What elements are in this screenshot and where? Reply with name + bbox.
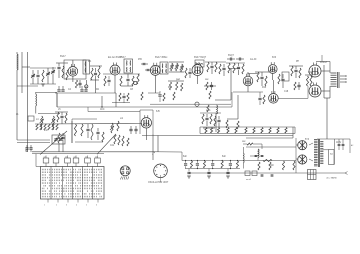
wire bbox=[160, 178, 162, 182]
oscillator coil L2 bbox=[35, 94, 38, 106]
resistor R17 bbox=[206, 82, 208, 90]
wire bbox=[242, 147, 244, 153]
capacitor C46 bbox=[261, 154, 264, 156]
switch bus bbox=[32, 151, 155, 153]
wire bbox=[75, 141, 103, 143]
trimmer box TB3 bbox=[65, 158, 71, 163]
voltage divider rail bbox=[200, 126, 295, 128]
wire bbox=[95, 80, 97, 93]
resistor R40 bbox=[52, 124, 54, 130]
resistor R6 bbox=[98, 66, 100, 78]
resistor R62 bbox=[253, 128, 255, 134]
resistor R60 bbox=[235, 128, 237, 134]
plug base bbox=[121, 177, 129, 180]
trimmer box TB2 bbox=[53, 158, 59, 163]
capacitor C20 bbox=[222, 67, 225, 69]
ground bus bbox=[55, 92, 116, 94]
capacitor C26 bbox=[294, 69, 297, 71]
resistor R50 bbox=[118, 135, 120, 145]
resistor R14 bbox=[169, 82, 171, 90]
wire bbox=[56, 62, 68, 64]
wire bbox=[227, 118, 238, 120]
resistor R16 bbox=[181, 83, 183, 91]
svg-text:C21: C21 bbox=[110, 145, 115, 147]
capacitor C18 bbox=[210, 84, 213, 86]
wire bbox=[247, 72, 249, 76]
wire bbox=[87, 107, 89, 112]
capacitor C35 bbox=[96, 131, 99, 133]
wire bbox=[323, 65, 325, 98]
svg-text:AC: AC bbox=[351, 144, 354, 147]
capacitor C15 bbox=[143, 62, 146, 64]
filter capacitor FC1 bbox=[184, 163, 187, 165]
svg-text:6V6GT: 6V6GT bbox=[320, 62, 328, 64]
resistor R27 bbox=[291, 66, 293, 76]
svg-text:12: 12 bbox=[65, 156, 67, 158]
coupling coil L6 bbox=[217, 105, 218, 114]
wire bbox=[35, 106, 37, 114]
power transformer T6 bbox=[314, 139, 323, 167]
mains terminals bbox=[345, 172, 348, 174]
wire bbox=[215, 99, 231, 101]
capacitor C34 bbox=[86, 128, 89, 130]
capacitor C16 bbox=[147, 68, 150, 70]
wire bbox=[203, 127, 215, 129]
svg-text:osc: osc bbox=[242, 141, 246, 143]
connector plug P1 bbox=[120, 166, 130, 176]
wire bbox=[292, 127, 294, 138]
resistor R7 bbox=[120, 76, 122, 86]
resistor R56 bbox=[205, 128, 207, 134]
switch box S4 bbox=[252, 171, 257, 176]
svg-text:455: 455 bbox=[138, 59, 143, 61]
wire bbox=[72, 60, 74, 67]
resistor R28 bbox=[299, 68, 301, 78]
resistor R58 bbox=[218, 128, 220, 134]
junction bbox=[101, 106, 102, 107]
resistor R15 bbox=[176, 82, 178, 90]
tube V1 bbox=[68, 64, 78, 76]
svg-text:C4: C4 bbox=[68, 89, 72, 91]
wire bbox=[295, 138, 297, 173]
wire bbox=[17, 139, 50, 141]
electrolytic C40 bbox=[187, 171, 190, 173]
wire bbox=[152, 65, 160, 67]
svg-text:PP: PP bbox=[296, 61, 300, 63]
IF transformer T1 bbox=[83, 60, 90, 74]
tube V7 bbox=[269, 91, 279, 103]
switch terminals bbox=[47, 199, 49, 203]
svg-text:6SA7: 6SA7 bbox=[60, 55, 66, 58]
svg-text:6J5: 6J5 bbox=[156, 111, 160, 113]
resistor R20 bbox=[219, 64, 221, 74]
resistor R22 bbox=[233, 63, 235, 73]
wire bbox=[243, 143, 247, 145]
capacitor C8 bbox=[94, 72, 97, 74]
svg-text:6: 6 bbox=[96, 205, 97, 207]
svg-text:6SA7 455kc: 6SA7 455kc bbox=[155, 56, 168, 59]
wire bbox=[272, 73, 274, 80]
wire bbox=[197, 76, 199, 85]
wire bbox=[168, 80, 184, 82]
capacitor C48 bbox=[107, 79, 110, 81]
wire bbox=[22, 66, 30, 68]
svg-text:12: 12 bbox=[74, 156, 76, 158]
IF transformer T3 bbox=[160, 62, 168, 74]
diagonal wire bbox=[97, 135, 115, 154]
wire bbox=[233, 91, 263, 93]
resistor R76 bbox=[209, 91, 211, 99]
AF bus bbox=[142, 135, 293, 137]
wire bbox=[114, 75, 116, 93]
capacitor C19 bbox=[210, 65, 213, 67]
wire bbox=[35, 92, 37, 94]
padder box bbox=[28, 116, 34, 121]
rectifier V12 bbox=[298, 155, 307, 164]
svg-text:1: 1 bbox=[44, 205, 45, 207]
capacitor C32 bbox=[29, 147, 32, 149]
coupling box bbox=[282, 72, 289, 81]
resistor R79 bbox=[127, 93, 129, 101]
variable resistor R12 bbox=[181, 64, 183, 72]
trimmer box TB1 bbox=[43, 158, 49, 163]
ground bus bbox=[17, 85, 38, 87]
shield box of V8 bbox=[140, 110, 153, 134]
tube socket S2 bbox=[154, 164, 168, 178]
resistor R77 bbox=[207, 105, 209, 112]
wire bbox=[17, 142, 50, 144]
filter capacitor FC4 bbox=[203, 161, 205, 168]
capacitor C39 bbox=[217, 119, 220, 121]
svg-text:R21: R21 bbox=[308, 72, 313, 74]
resistor R1 bbox=[42, 70, 44, 82]
resistor R69 bbox=[237, 121, 239, 129]
resistor R61 bbox=[245, 128, 247, 134]
svg-text:3: 3 bbox=[66, 205, 67, 207]
svg-text:L4: L4 bbox=[36, 119, 39, 121]
wire bbox=[35, 154, 37, 167]
wire bbox=[247, 86, 249, 92]
speaker terminals bbox=[340, 75, 346, 77]
capacitor C11 bbox=[80, 89, 83, 91]
filter capacitor FC8 bbox=[236, 161, 238, 168]
resistor R2 bbox=[62, 66, 64, 78]
resistor R3 bbox=[66, 70, 68, 80]
trimmer box TB5 bbox=[85, 158, 91, 163]
variable capacitor C30 bbox=[59, 138, 62, 140]
capacitor C22 bbox=[238, 58, 240, 61]
resistor R34 bbox=[57, 112, 59, 122]
resistor R70 bbox=[104, 76, 106, 86]
resistor R52 bbox=[127, 138, 129, 146]
resistor R73 bbox=[282, 161, 284, 170]
capacitor C24 bbox=[260, 76, 263, 78]
wire bbox=[101, 96, 103, 107]
resistor R51 bbox=[122, 136, 124, 146]
fuse board F1 bbox=[308, 170, 317, 180]
wire bbox=[247, 72, 258, 74]
tube V2 bbox=[110, 63, 120, 76]
output transformer T5 bbox=[331, 72, 340, 88]
resistor R67 bbox=[263, 95, 265, 104]
wire bbox=[58, 143, 60, 152]
dial lamp LP1 bbox=[195, 102, 199, 106]
ground bbox=[207, 175, 211, 177]
filter capacitor FC3 bbox=[196, 163, 199, 165]
capacitor C47 bbox=[258, 97, 261, 99]
wire bbox=[296, 144, 299, 146]
antenna coil L1 bbox=[17, 54, 18, 70]
switch contacts bbox=[42, 169, 101, 198]
wire bbox=[324, 97, 330, 99]
wire bbox=[305, 74, 313, 76]
wire bbox=[289, 65, 303, 67]
wire bbox=[36, 91, 57, 93]
wire bbox=[169, 61, 184, 63]
resistor R80 bbox=[141, 92, 143, 100]
choke L3 bbox=[242, 153, 245, 163]
wire bbox=[35, 123, 142, 126]
wire bbox=[56, 93, 58, 107]
resistor R63 bbox=[261, 128, 263, 134]
resistor R19 bbox=[215, 62, 217, 72]
capacitor C27 bbox=[297, 84, 300, 86]
wire bbox=[309, 143, 313, 145]
wire bbox=[103, 73, 112, 75]
resistor R54 bbox=[210, 114, 212, 124]
rectifier V11 bbox=[298, 141, 307, 150]
svg-text:C8: C8 bbox=[130, 89, 134, 91]
wire bbox=[148, 92, 160, 94]
wire bbox=[228, 68, 240, 70]
filter capacitor FC7 bbox=[229, 163, 232, 165]
wire bbox=[52, 126, 54, 130]
svg-text:IF1: IF1 bbox=[88, 61, 92, 63]
svg-text:5: 5 bbox=[86, 205, 87, 207]
mark bbox=[153, 152, 155, 154]
wire bbox=[16, 70, 18, 140]
filter bus bbox=[182, 160, 296, 162]
svg-text:AVC: AVC bbox=[100, 108, 105, 111]
resistor R38 bbox=[44, 124, 46, 130]
wire bbox=[272, 80, 274, 94]
wire bbox=[181, 152, 183, 161]
resistor R68 bbox=[226, 120, 228, 128]
wire bbox=[41, 126, 43, 130]
wire bbox=[121, 85, 133, 87]
resistor R49 bbox=[114, 134, 116, 144]
capacitor C31 bbox=[25, 147, 28, 149]
resistor R24 bbox=[257, 72, 259, 82]
wire bbox=[215, 113, 217, 132]
capacitor C9 bbox=[57, 89, 60, 91]
resistor R31 bbox=[310, 76, 312, 86]
resistor R43 bbox=[74, 124, 76, 136]
svg-text:S1: S1 bbox=[25, 151, 29, 153]
wire bbox=[226, 62, 245, 64]
svg-text:6V6: 6V6 bbox=[272, 57, 277, 59]
wire bbox=[329, 86, 331, 98]
svg-text:12: 12 bbox=[95, 156, 97, 158]
wire bbox=[115, 93, 117, 107]
wire bbox=[21, 54, 23, 93]
series resistor R75 bbox=[247, 143, 253, 145]
wire bbox=[242, 163, 244, 169]
tube V3 bbox=[150, 63, 160, 76]
trimmer box TB6 bbox=[95, 158, 101, 163]
wire bbox=[90, 65, 102, 67]
resistor R64 bbox=[269, 128, 271, 134]
resistor R42 bbox=[58, 133, 60, 143]
IF transformer T2 bbox=[124, 59, 133, 73]
wire bbox=[349, 139, 351, 153]
capacitor C17 bbox=[188, 71, 191, 73]
svg-text:OSCILLATOR UNIT: OSCILLATOR UNIT bbox=[148, 181, 169, 184]
svg-text:L5: L5 bbox=[58, 109, 61, 111]
resistor R29 bbox=[294, 82, 296, 90]
electrolytic capacitor C7 bbox=[85, 85, 88, 88]
wire bbox=[321, 90, 330, 92]
oscillator trimmer box bbox=[52, 135, 65, 144]
wire bbox=[119, 73, 140, 75]
wire bbox=[257, 158, 259, 161]
bus 2 bbox=[150, 103, 231, 105]
svg-text:osc: osc bbox=[205, 79, 209, 81]
resistor R5 bbox=[91, 68, 93, 80]
svg-text:6SK7: 6SK7 bbox=[120, 57, 126, 59]
electrolytic capacitor C14 bbox=[134, 81, 137, 84]
wire bbox=[155, 151, 182, 153]
tube V8 bbox=[141, 115, 151, 128]
wire bbox=[200, 112, 221, 114]
wire bbox=[204, 85, 216, 87]
capacitor C38 bbox=[205, 117, 208, 119]
svg-text:L: L bbox=[152, 154, 153, 156]
wire bbox=[317, 138, 350, 140]
wire bbox=[231, 92, 233, 107]
tube V10 bbox=[309, 83, 321, 98]
AVC line bbox=[88, 111, 140, 113]
svg-text:C18: C18 bbox=[284, 91, 289, 93]
resistor R55 bbox=[214, 116, 216, 126]
capacitor C21 bbox=[229, 58, 231, 61]
wire bbox=[169, 71, 184, 73]
wire bbox=[250, 155, 256, 157]
resistor R45 bbox=[91, 124, 93, 140]
wire bbox=[30, 83, 56, 85]
svg-text:T2: T2 bbox=[330, 154, 333, 156]
capacitor C10 bbox=[61, 89, 64, 91]
wire bbox=[27, 54, 29, 152]
wire bbox=[294, 127, 296, 134]
variable resistor R10 bbox=[171, 63, 173, 71]
shield box of V1 bbox=[64, 60, 86, 79]
tube V6 bbox=[268, 62, 277, 73]
resistor R78 bbox=[119, 93, 121, 101]
svg-text:4: 4 bbox=[76, 205, 77, 207]
capacitor C50 bbox=[271, 174, 274, 176]
svg-text:R15: R15 bbox=[262, 87, 267, 89]
variable resistor R32 bbox=[41, 116, 43, 126]
wire bbox=[62, 146, 64, 152]
capacitor C43 bbox=[338, 143, 341, 145]
resistor R46 bbox=[102, 132, 104, 142]
svg-text:on-off: on-off bbox=[246, 179, 251, 181]
fuse F2 bbox=[263, 159, 272, 161]
resistor R8 bbox=[132, 76, 134, 86]
resistor R39 bbox=[48, 124, 50, 130]
svg-text:A.C. MAINS: A.C. MAINS bbox=[327, 176, 338, 179]
resistor R37 bbox=[40, 124, 42, 130]
resistor R25 bbox=[265, 76, 267, 86]
resistor R9 bbox=[137, 74, 139, 84]
wire bbox=[278, 97, 308, 99]
capacitor C28 bbox=[60, 115, 63, 117]
capacitor C23 bbox=[237, 66, 240, 68]
variable resistor R11 bbox=[176, 63, 178, 71]
resistor R44 bbox=[81, 124, 83, 136]
wire bbox=[71, 121, 73, 143]
svg-text:8uF: 8uF bbox=[222, 156, 227, 158]
resistor R36 bbox=[36, 124, 38, 130]
junction bbox=[197, 168, 198, 169]
variable capacitor C3 bbox=[46, 72, 49, 74]
resistor R26 bbox=[278, 74, 280, 84]
resistor R30 bbox=[306, 76, 308, 86]
wire bbox=[145, 128, 147, 140]
resistor R74 bbox=[293, 161, 295, 170]
wire bbox=[237, 95, 239, 119]
svg-text:2: 2 bbox=[56, 205, 57, 207]
wire bbox=[329, 62, 331, 74]
oscillator coil box T4 bbox=[195, 60, 204, 67]
capacitor C37 bbox=[134, 128, 137, 130]
svg-text:12: 12 bbox=[54, 156, 56, 158]
resistor R57 bbox=[211, 128, 213, 134]
capacitor C36 bbox=[129, 128, 132, 130]
mains box bbox=[329, 150, 335, 165]
wire bbox=[199, 127, 201, 134]
ground bbox=[226, 175, 230, 177]
ground bbox=[41, 83, 45, 85]
wire bbox=[230, 69, 232, 101]
wire bbox=[255, 71, 269, 73]
svg-text:5Y3: 5Y3 bbox=[305, 139, 310, 141]
wire bbox=[321, 70, 330, 72]
resistor R35 bbox=[65, 113, 67, 123]
resistor R82 bbox=[173, 92, 175, 100]
filter capacitor FC2 bbox=[190, 161, 192, 168]
trimmer box TB4 bbox=[73, 158, 79, 163]
capacitor C51 bbox=[122, 95, 125, 97]
wire bbox=[30, 67, 56, 69]
capacitor C45 bbox=[255, 154, 258, 156]
wire bbox=[55, 111, 68, 113]
wire bbox=[72, 76, 74, 82]
AF section box bbox=[72, 119, 97, 143]
resistor R13 bbox=[185, 68, 187, 78]
ground bbox=[187, 175, 191, 177]
wire bbox=[205, 61, 226, 63]
svg-text:6SK7 6SQ7: 6SK7 6SQ7 bbox=[194, 57, 207, 59]
svg-text:R2: R2 bbox=[96, 89, 100, 91]
variable resistor R33 bbox=[52, 116, 54, 126]
volume control R47 bbox=[111, 123, 113, 133]
tube V9 bbox=[309, 63, 321, 78]
svg-text:12: 12 bbox=[44, 156, 46, 158]
electrolytic C41 bbox=[207, 171, 210, 173]
svg-text:vol: vol bbox=[120, 118, 123, 120]
